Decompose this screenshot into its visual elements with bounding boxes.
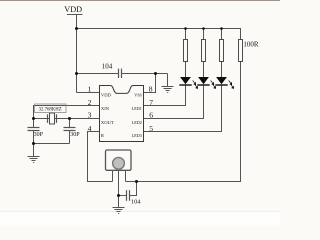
svg-text:XOUT: XOUT (101, 120, 114, 125)
svg-text:VSS: VSS (134, 92, 142, 97)
svg-text:VDD: VDD (101, 92, 112, 97)
svg-text:LED3: LED3 (132, 133, 142, 138)
svg-text:100R: 100R (243, 41, 259, 49)
svg-text:LED2: LED2 (132, 120, 142, 125)
svg-text:30P: 30P (34, 132, 44, 138)
svg-text:LED1: LED1 (132, 106, 142, 111)
svg-text:8: 8 (149, 84, 153, 93)
svg-text:VDD: VDD (64, 5, 82, 14)
svg-text:XIN: XIN (101, 106, 110, 111)
svg-text:32.768KHZ: 32.768KHZ (39, 108, 62, 113)
svg-text:2: 2 (88, 98, 92, 107)
svg-text:7: 7 (149, 98, 153, 107)
svg-text:104: 104 (131, 198, 141, 205)
svg-text:1: 1 (88, 84, 92, 93)
svg-text:5: 5 (149, 124, 153, 133)
svg-text:6: 6 (149, 111, 153, 120)
svg-text:30P: 30P (70, 132, 80, 138)
svg-text:3: 3 (88, 111, 92, 120)
svg-text:104: 104 (102, 63, 113, 71)
svg-text:4: 4 (88, 124, 92, 133)
